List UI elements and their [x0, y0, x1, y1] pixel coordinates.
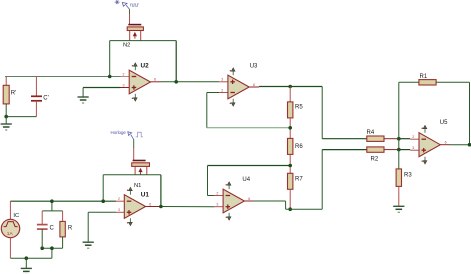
svg-text:N1: N1	[134, 183, 141, 189]
junction: chain top	[288, 85, 292, 89]
transistor N2 (MOSFET)	[123, 9, 143, 48]
ground below R3	[393, 206, 404, 212]
junction: R7 bottom node	[288, 207, 292, 211]
junction: N2 left leg on rail	[108, 75, 112, 79]
resistor R6	[288, 138, 304, 173]
junction at R' bottom	[4, 115, 8, 119]
junction: N2 right leg on U2 output	[174, 80, 178, 84]
junction: loop bottom stem	[50, 246, 54, 250]
junction: R5/R6 tap	[288, 126, 292, 130]
wire: C/R parallel loop	[42, 201, 62, 248]
resistor R5	[288, 87, 304, 139]
svg-text:2: 2	[118, 197, 120, 201]
svg-text:R6: R6	[295, 144, 303, 150]
resistor R4	[367, 130, 411, 142]
svg-text:2: 2	[216, 191, 218, 195]
svg-text:6: 6	[445, 141, 447, 145]
capacitor C'	[31, 77, 49, 117]
op-amp U5	[410, 120, 448, 164]
junction: R2/R3 node	[397, 148, 401, 152]
wire: U3 output to resistor chain and R4	[249, 87, 367, 139]
svg-text:R5: R5	[295, 105, 303, 111]
svg-text:3: 3	[123, 83, 125, 87]
wire: bottom return	[10, 248, 52, 258]
svg-text:3: 3	[221, 78, 223, 82]
svg-text:R7: R7	[295, 177, 303, 183]
junction: R6/R7 tap	[288, 164, 292, 168]
wire: U5 output	[440, 144, 471, 146]
junction: N1 right leg on U1 output	[159, 205, 163, 209]
svg-text:6: 6	[149, 202, 151, 206]
wire: U1 output to U4 +input	[146, 206, 215, 208]
junction: R1 on U5 output	[468, 143, 471, 147]
svg-text:U2: U2	[141, 62, 150, 69]
svg-text:U4: U4	[242, 177, 250, 183]
junction: loop top on rail	[50, 199, 54, 203]
wire: R1 left leg down through input nodes to R3	[398, 82, 400, 169]
svg-text:R1: R1	[420, 74, 428, 80]
resistor R'	[3, 77, 16, 117]
resistor R	[60, 211, 73, 248]
wire: lower-left rail to U1 -input	[10, 200, 116, 202]
digital clock generator symbol (top)	[115, 0, 139, 9]
resistor R2	[367, 147, 410, 163]
wire: U4 output down to R7 bottom rail and to R2	[244, 150, 366, 210]
svg-text:1A: 1A	[7, 231, 14, 237]
junction: C bottom corner	[40, 246, 44, 250]
svg-text:U3: U3	[250, 64, 258, 70]
svg-text:U5: U5	[440, 120, 448, 126]
current source IC	[1, 201, 19, 258]
junction: R1/R4 node	[397, 137, 401, 141]
svg-text:3: 3	[216, 203, 218, 207]
svg-text:2: 2	[221, 88, 223, 92]
svg-text:R2: R2	[371, 157, 379, 163]
junction: N1 left leg on rail	[101, 199, 105, 203]
svg-text:N2: N2	[123, 43, 130, 49]
svg-text:R: R	[68, 225, 73, 231]
op-amp U3	[219, 64, 258, 107]
pulse generator symbol (Horloge)	[111, 130, 144, 139]
svg-text:IC: IC	[13, 213, 19, 219]
resistor R1	[399, 74, 470, 145]
svg-text:3: 3	[412, 146, 414, 150]
svg-text:Horloge: Horloge	[111, 130, 127, 135]
svg-text:6: 6	[253, 83, 255, 87]
svg-text:2: 2	[123, 72, 125, 76]
svg-text:C: C	[50, 225, 55, 231]
svg-text:3: 3	[118, 208, 120, 212]
wire: U4 -input from R6/R7 tap	[208, 166, 291, 196]
capacitor C	[37, 211, 55, 248]
op-amp U2	[121, 62, 157, 101]
wire: U3 feedback (-input to R5/R6 tap)	[207, 93, 290, 128]
op-amp U4	[214, 177, 250, 220]
transistor N1 (MOSFET)	[132, 139, 150, 189]
svg-text:R4: R4	[367, 130, 375, 136]
svg-text:6: 6	[248, 197, 250, 201]
wire: N1 source/drain loop	[103, 175, 161, 207]
resistor R7	[288, 173, 304, 209]
junction: ground tap	[25, 256, 29, 260]
ground below R'	[1, 117, 12, 130]
ground at U2 +input	[78, 88, 121, 104]
svg-text:2: 2	[412, 135, 414, 139]
svg-text:6: 6	[154, 78, 156, 82]
svg-text:U1: U1	[141, 192, 150, 199]
op-amp U1	[116, 187, 151, 225]
resistor R3	[396, 169, 412, 206]
svg-text:R3: R3	[404, 173, 412, 179]
ground at U1 +input	[83, 212, 116, 248]
wire: U2 output to U3 +input	[151, 81, 220, 83]
svg-text:C': C'	[43, 95, 48, 101]
ground bottom-left	[21, 258, 32, 274]
svg-text:R': R'	[11, 90, 16, 96]
wire: R' and C' bottoms joined	[6, 116, 36, 118]
wire: N2 source/drain loop	[110, 41, 177, 82]
wire: top-left rail from R' to U2 -in	[5, 76, 121, 78]
